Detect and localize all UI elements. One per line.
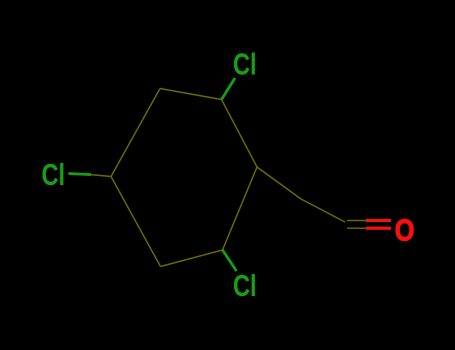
bond C1-CH2 xyxy=(257,167,301,199)
svg-text:Cl: Cl xyxy=(42,157,66,192)
svg-text:Cl: Cl xyxy=(233,46,257,81)
wire ring edge L-TL xyxy=(111,89,160,177)
bond CH2-CHO xyxy=(301,199,345,222)
atom label Cl top xyxy=(233,46,257,81)
wire ring edge BL-L xyxy=(111,177,161,267)
svg-text:O: O xyxy=(395,213,415,248)
bond C6-Cl bottom (full chlorine green) xyxy=(223,250,237,271)
wire ring edge TR-R xyxy=(222,100,258,168)
wire ring edge R-BR xyxy=(223,167,258,250)
C=O lower line oxygen half xyxy=(366,227,391,230)
atom label Cl bottom xyxy=(233,268,257,303)
bond C4-Cl left chlorine half xyxy=(69,174,92,175)
wire ring edge TL-TR xyxy=(160,89,222,100)
bond C2-Cl top (full chlorine green) xyxy=(222,78,236,100)
benzene ring xyxy=(111,89,257,267)
svg-text:Cl: Cl xyxy=(233,268,257,303)
bond C4-Cl left carbon half xyxy=(91,175,111,177)
C=O lower line carbon half xyxy=(347,227,366,229)
atom label O aldehyde xyxy=(395,213,415,248)
atom label Cl left xyxy=(42,157,66,192)
wire ring edge BR-BL xyxy=(161,250,223,267)
C=O upper line carbon half xyxy=(347,220,366,222)
C=O upper line oxygen half xyxy=(366,219,391,222)
